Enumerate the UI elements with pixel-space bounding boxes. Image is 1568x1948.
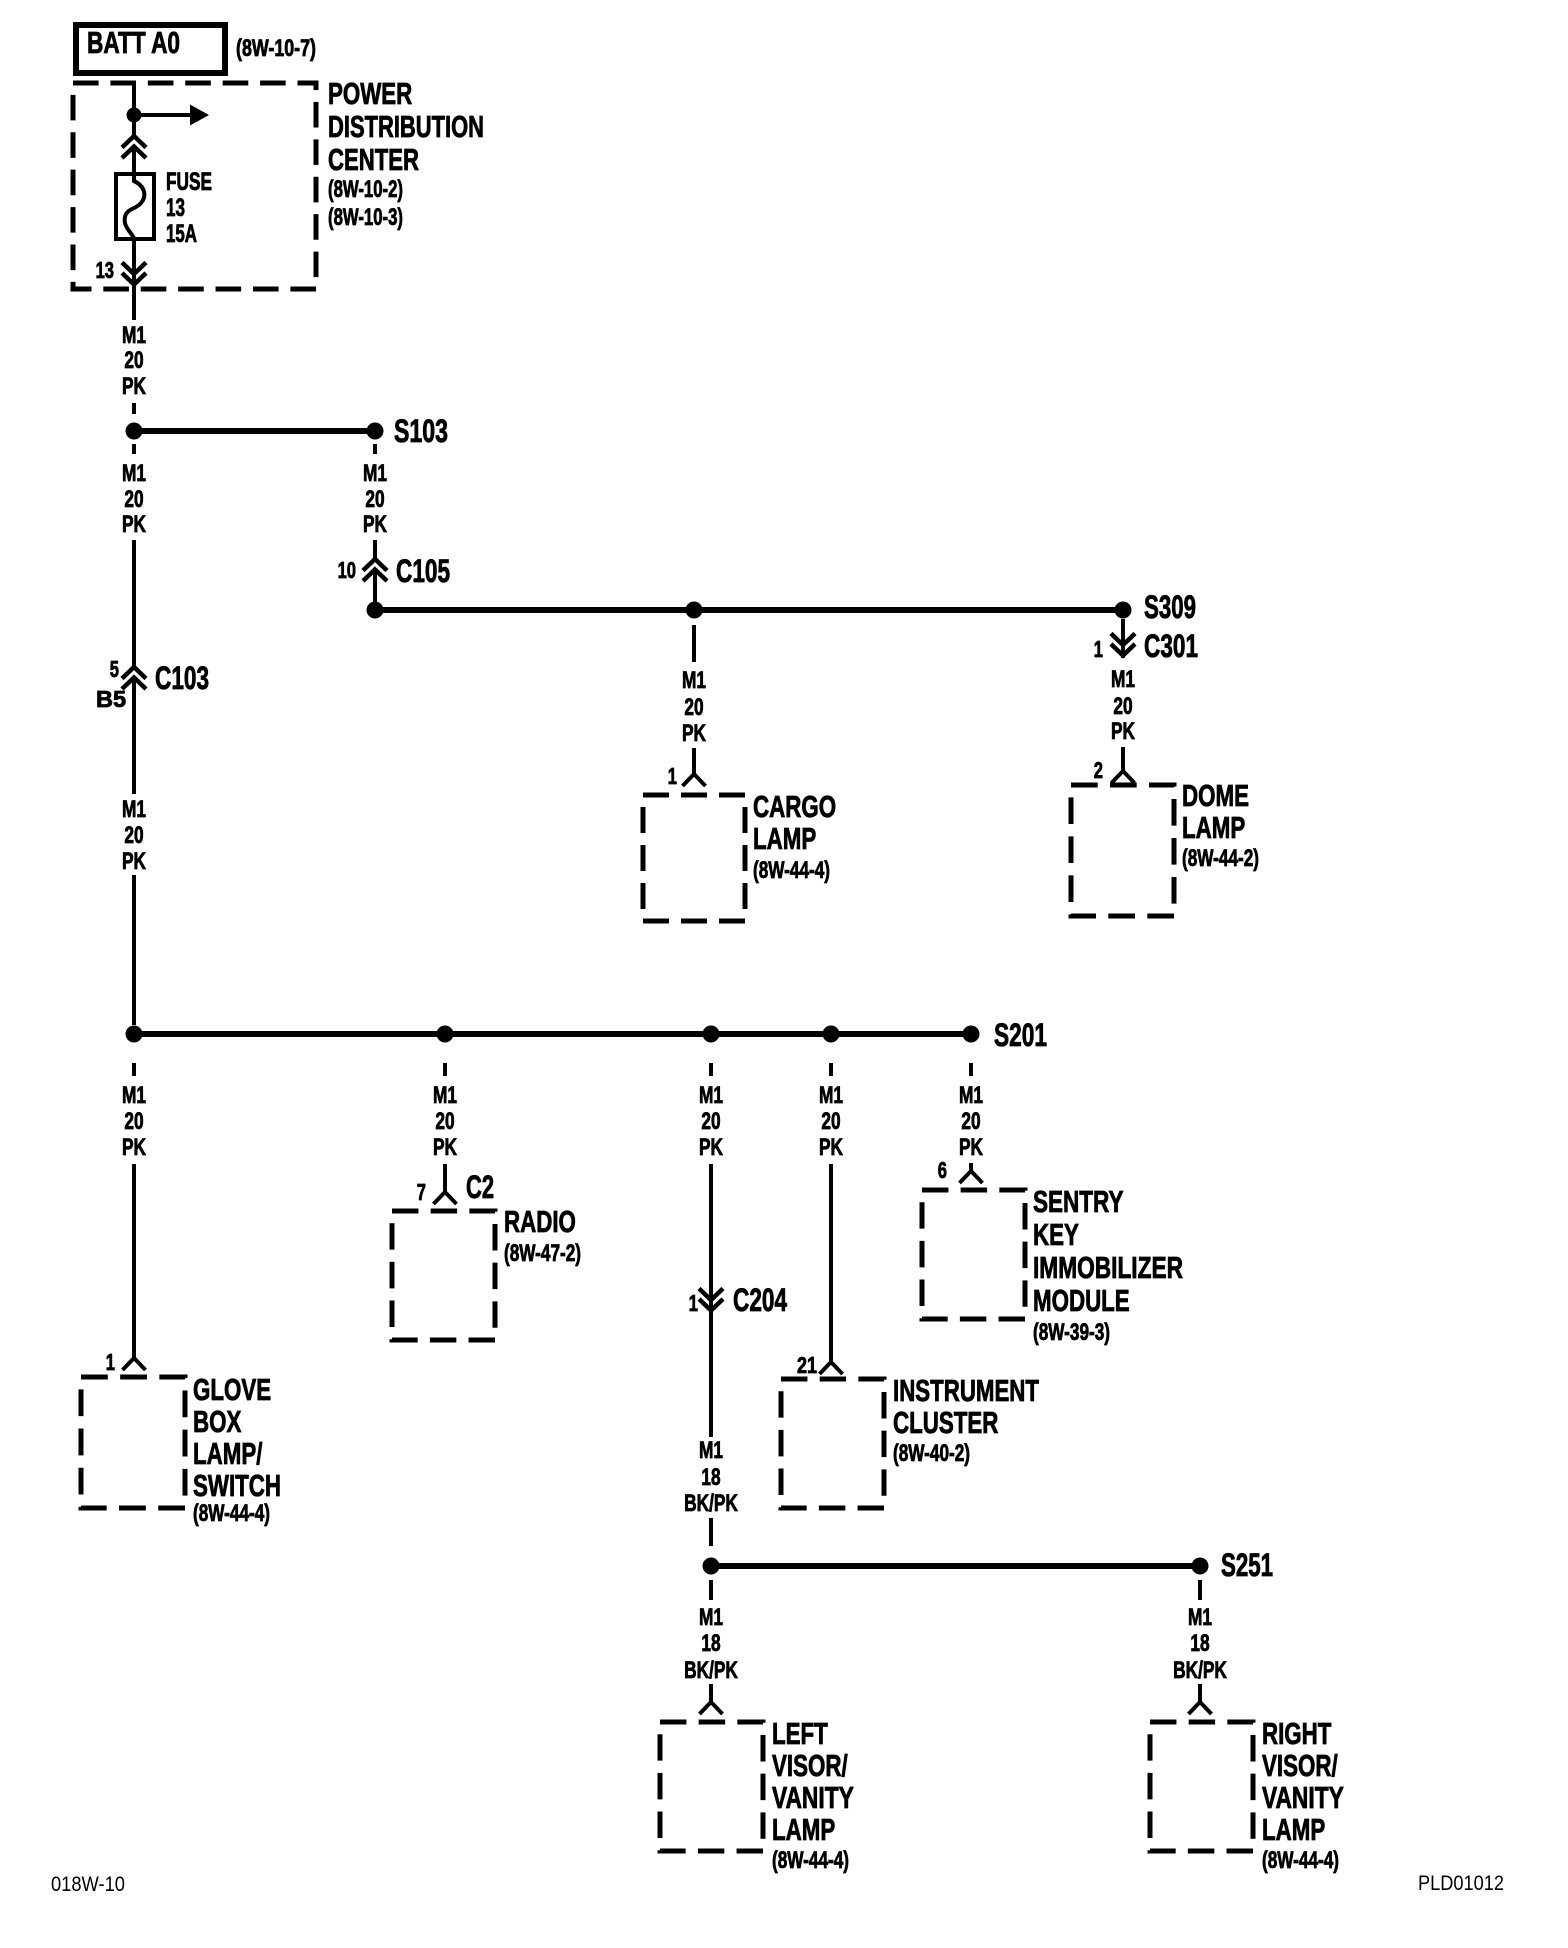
svg-text:BOX: BOX [193, 1404, 242, 1439]
fuse 13 15A [116, 174, 154, 239]
svg-text:VANITY: VANITY [1262, 1780, 1344, 1815]
svg-text:S251: S251 [1221, 1547, 1273, 1583]
sentry key immobilizer box [922, 1190, 1025, 1319]
svg-text:13: 13 [96, 257, 114, 283]
svg-text:M1: M1 [699, 1604, 723, 1631]
node bus left [126, 1026, 143, 1043]
svg-text:C2: C2 [466, 1169, 494, 1205]
connector Y glove box [123, 1358, 146, 1370]
svg-text:20: 20 [124, 486, 143, 513]
connector C105 chevron [363, 559, 387, 581]
svg-text:CLUSTER: CLUSTER [893, 1405, 998, 1440]
svg-text:(8W-39-3): (8W-39-3) [1033, 1319, 1110, 1346]
svg-text:M1: M1 [122, 1082, 146, 1109]
svg-text:PK: PK [682, 720, 706, 747]
svg-text:(8W-10-3): (8W-10-3) [328, 204, 403, 231]
svg-text:(8W-44-2): (8W-44-2) [1182, 845, 1259, 872]
svg-text:CENTER: CENTER [328, 142, 419, 177]
svg-text:20: 20 [821, 1108, 840, 1135]
svg-text:21: 21 [797, 1352, 817, 1378]
connector C204 chevron [699, 1289, 723, 1311]
wire to C204 [709, 1164, 713, 1313]
connector C301 chevron [1111, 634, 1135, 656]
connector Y radio [434, 1192, 457, 1204]
wire dash below bus C204 [709, 1063, 713, 1076]
svg-text:PK: PK [433, 1134, 457, 1161]
svg-text:(8W-10-7): (8W-10-7) [236, 35, 316, 62]
wire to glove box [132, 1164, 136, 1358]
svg-text:PK: PK [959, 1134, 983, 1161]
svg-text:SWITCH: SWITCH [193, 1468, 281, 1503]
node S103 [367, 423, 384, 440]
wire row S251 [711, 1563, 1200, 1569]
svg-text:M1: M1 [122, 322, 146, 349]
power distribution center box [73, 83, 316, 289]
svg-text:CARGO: CARGO [753, 789, 836, 824]
node cargo junction [686, 602, 703, 619]
svg-text:KEY: KEY [1033, 1217, 1079, 1252]
svg-text:20: 20 [365, 486, 384, 513]
svg-text:INSTRUMENT: INSTRUMENT [893, 1373, 1039, 1408]
svg-text:(8W-44-4): (8W-44-4) [1262, 1847, 1339, 1874]
node bus radio [437, 1026, 454, 1043]
wire dash above S251 row [709, 1518, 713, 1546]
svg-text:PK: PK [1111, 718, 1135, 745]
svg-text:(8W-44-4): (8W-44-4) [772, 1847, 849, 1874]
svg-text:IMMOBILIZER: IMMOBILIZER [1033, 1250, 1183, 1285]
wire dash above S103 row [132, 403, 136, 414]
svg-text:DISTRIBUTION: DISTRIBUTION [328, 109, 484, 144]
svg-text:LAMP: LAMP [772, 1812, 835, 1847]
node bus cluster [823, 1026, 840, 1043]
svg-text:PK: PK [363, 511, 387, 538]
wire dash below S103 [373, 444, 377, 454]
svg-text:SENTRY: SENTRY [1033, 1184, 1124, 1219]
svg-text:BATT A0: BATT A0 [87, 25, 180, 60]
svg-text:B5: B5 [96, 686, 126, 712]
svg-text:FUSE: FUSE [166, 168, 212, 196]
node bus C204 [703, 1026, 720, 1043]
svg-text:C204: C204 [733, 1282, 787, 1318]
svg-text:LAMP: LAMP [753, 821, 816, 856]
svg-text:PLD01012: PLD01012 [1418, 1872, 1504, 1895]
wire dash below S201 [969, 1063, 973, 1076]
svg-text:20: 20 [961, 1108, 980, 1135]
wire to cargo lamp [692, 748, 696, 774]
svg-text:C301: C301 [1144, 628, 1198, 664]
svg-text:1: 1 [668, 763, 677, 789]
wire to S103 [134, 428, 375, 434]
svg-text:RADIO: RADIO [504, 1204, 576, 1239]
svg-text:M1: M1 [122, 460, 146, 487]
node splice row junction [126, 423, 143, 440]
node S309 [1115, 602, 1132, 619]
wire arrow shaft [134, 113, 190, 117]
svg-text:1: 1 [106, 1349, 115, 1375]
svg-text:PK: PK [699, 1134, 723, 1161]
connector Y dome [1112, 771, 1135, 783]
svg-text:PK: PK [122, 1134, 146, 1161]
wire dash below bus cluster [829, 1063, 833, 1076]
wire dash below S251 [1198, 1580, 1202, 1600]
node S251 [1192, 1558, 1209, 1575]
wire to cluster [829, 1164, 833, 1362]
svg-text:BK/PK: BK/PK [1173, 1657, 1227, 1684]
node BATT A0 feed box [76, 25, 225, 73]
node row2 left [367, 602, 384, 619]
svg-text:LAMP: LAMP [1182, 810, 1245, 845]
right visor vanity lamp box [1150, 1722, 1253, 1851]
svg-text:(8W-47-2): (8W-47-2) [504, 1240, 581, 1267]
svg-text:GLOVE: GLOVE [193, 1372, 271, 1407]
svg-text:1: 1 [689, 1290, 698, 1316]
connector chevron below junction [122, 136, 146, 158]
svg-text:M1: M1 [819, 1082, 843, 1109]
svg-text:5: 5 [110, 656, 119, 682]
svg-text:20: 20 [701, 1108, 720, 1135]
bus wire [134, 1031, 971, 1037]
wire PDC exit down [132, 285, 136, 320]
svg-text:M1: M1 [122, 796, 146, 823]
wire below cargo junction [692, 625, 696, 662]
fuse element curve [125, 174, 145, 241]
svg-text:M1: M1 [363, 460, 387, 487]
svg-text:6: 6 [938, 1157, 947, 1183]
wire down to C103 [132, 540, 136, 667]
svg-text:VISOR/: VISOR/ [772, 1748, 848, 1783]
svg-text:LAMP: LAMP [1262, 1812, 1325, 1847]
connector C103 chevron [122, 667, 146, 689]
wire to sentry module [969, 1163, 973, 1171]
wire dash below bus left [132, 1063, 136, 1076]
svg-text:PK: PK [122, 848, 146, 875]
left visor vanity lamp box [660, 1722, 763, 1851]
svg-text:S201: S201 [994, 1017, 1047, 1053]
svg-text:13: 13 [166, 194, 185, 222]
glove box lamp box [81, 1377, 185, 1508]
svg-text:M1: M1 [433, 1082, 457, 1109]
node junction in PDC [127, 108, 142, 123]
svg-text:M1: M1 [699, 1082, 723, 1109]
wire dash below visor junction [709, 1580, 713, 1600]
svg-text:20: 20 [124, 1108, 143, 1135]
instrument cluster box [781, 1379, 884, 1508]
wire S309 to C301 [1121, 619, 1125, 658]
svg-text:M1: M1 [699, 1437, 723, 1464]
svg-text:M1: M1 [959, 1082, 983, 1109]
node visor junction [703, 1558, 720, 1575]
svg-text:S103: S103 [394, 413, 448, 449]
svg-text:10: 10 [338, 557, 356, 583]
connector Y left visor [700, 1702, 723, 1714]
svg-text:S309: S309 [1144, 589, 1196, 625]
connector Y cargo [683, 774, 706, 786]
wire to radio [443, 1164, 447, 1192]
wire dash below bus radio [443, 1063, 447, 1076]
svg-text:POWER: POWER [328, 76, 412, 111]
svg-text:BK/PK: BK/PK [684, 1490, 738, 1517]
svg-text:20: 20 [124, 822, 143, 849]
wire PDC top to fuse [132, 83, 136, 136]
svg-text:018W-10: 018W-10 [51, 1873, 125, 1896]
svg-text:20: 20 [684, 694, 703, 721]
svg-text:PK: PK [122, 511, 146, 538]
svg-text:(8W-40-2): (8W-40-2) [893, 1440, 970, 1467]
node S201 [963, 1026, 980, 1043]
svg-text:20: 20 [435, 1108, 454, 1135]
connector Y cluster [820, 1362, 843, 1374]
svg-text:C105: C105 [396, 553, 450, 589]
wire down to bus [132, 875, 136, 1025]
svg-text:PK: PK [122, 373, 146, 400]
svg-text:M1: M1 [682, 667, 706, 694]
svg-text:(8W-44-4): (8W-44-4) [753, 857, 830, 884]
svg-text:PK: PK [819, 1134, 843, 1161]
svg-text:18: 18 [1190, 1630, 1209, 1657]
connector Y right visor [1189, 1702, 1212, 1714]
svg-text:MODULE: MODULE [1033, 1283, 1130, 1318]
wire below C103 [132, 678, 136, 794]
wire chevron to fuse [132, 147, 136, 172]
connector Y sentry [960, 1171, 983, 1183]
svg-text:7: 7 [417, 1179, 426, 1205]
svg-text:2: 2 [1094, 757, 1103, 783]
svg-text:20: 20 [124, 347, 143, 374]
arrow to other circuits [190, 105, 209, 126]
svg-text:(8W-10-2): (8W-10-2) [328, 176, 403, 203]
svg-text:M1: M1 [1111, 666, 1135, 693]
svg-text:1: 1 [1094, 636, 1103, 662]
svg-text:C103: C103 [155, 660, 209, 696]
svg-text:LAMP/: LAMP/ [193, 1436, 263, 1471]
wire to right visor [1198, 1684, 1202, 1702]
wire below C105 [373, 570, 377, 610]
cargo lamp box [643, 795, 745, 921]
svg-text:(8W-44-4): (8W-44-4) [193, 1500, 270, 1527]
svg-text:18: 18 [701, 1464, 720, 1491]
svg-text:RIGHT: RIGHT [1262, 1716, 1331, 1751]
dome lamp box [1071, 785, 1174, 916]
wire to dome lamp [1121, 747, 1125, 771]
svg-text:M1: M1 [1188, 1604, 1212, 1631]
radio box [392, 1211, 495, 1340]
svg-text:BK/PK: BK/PK [684, 1657, 738, 1684]
wire row2 to S309 [375, 607, 1123, 613]
svg-text:20: 20 [1113, 693, 1132, 720]
connector chevron PDC exit [122, 263, 146, 285]
svg-text:LEFT: LEFT [772, 1716, 828, 1751]
wire to left visor [709, 1684, 713, 1702]
svg-text:VANITY: VANITY [772, 1780, 854, 1815]
wire below C204 [709, 1313, 713, 1437]
svg-text:18: 18 [701, 1630, 720, 1657]
svg-text:DOME: DOME [1182, 778, 1249, 813]
wire fuse to exit chevron [132, 241, 136, 285]
wire dash below junction [132, 444, 136, 454]
wire to C105 [373, 540, 377, 559]
svg-text:VISOR/: VISOR/ [1262, 1748, 1338, 1783]
svg-text:15A: 15A [166, 220, 197, 248]
